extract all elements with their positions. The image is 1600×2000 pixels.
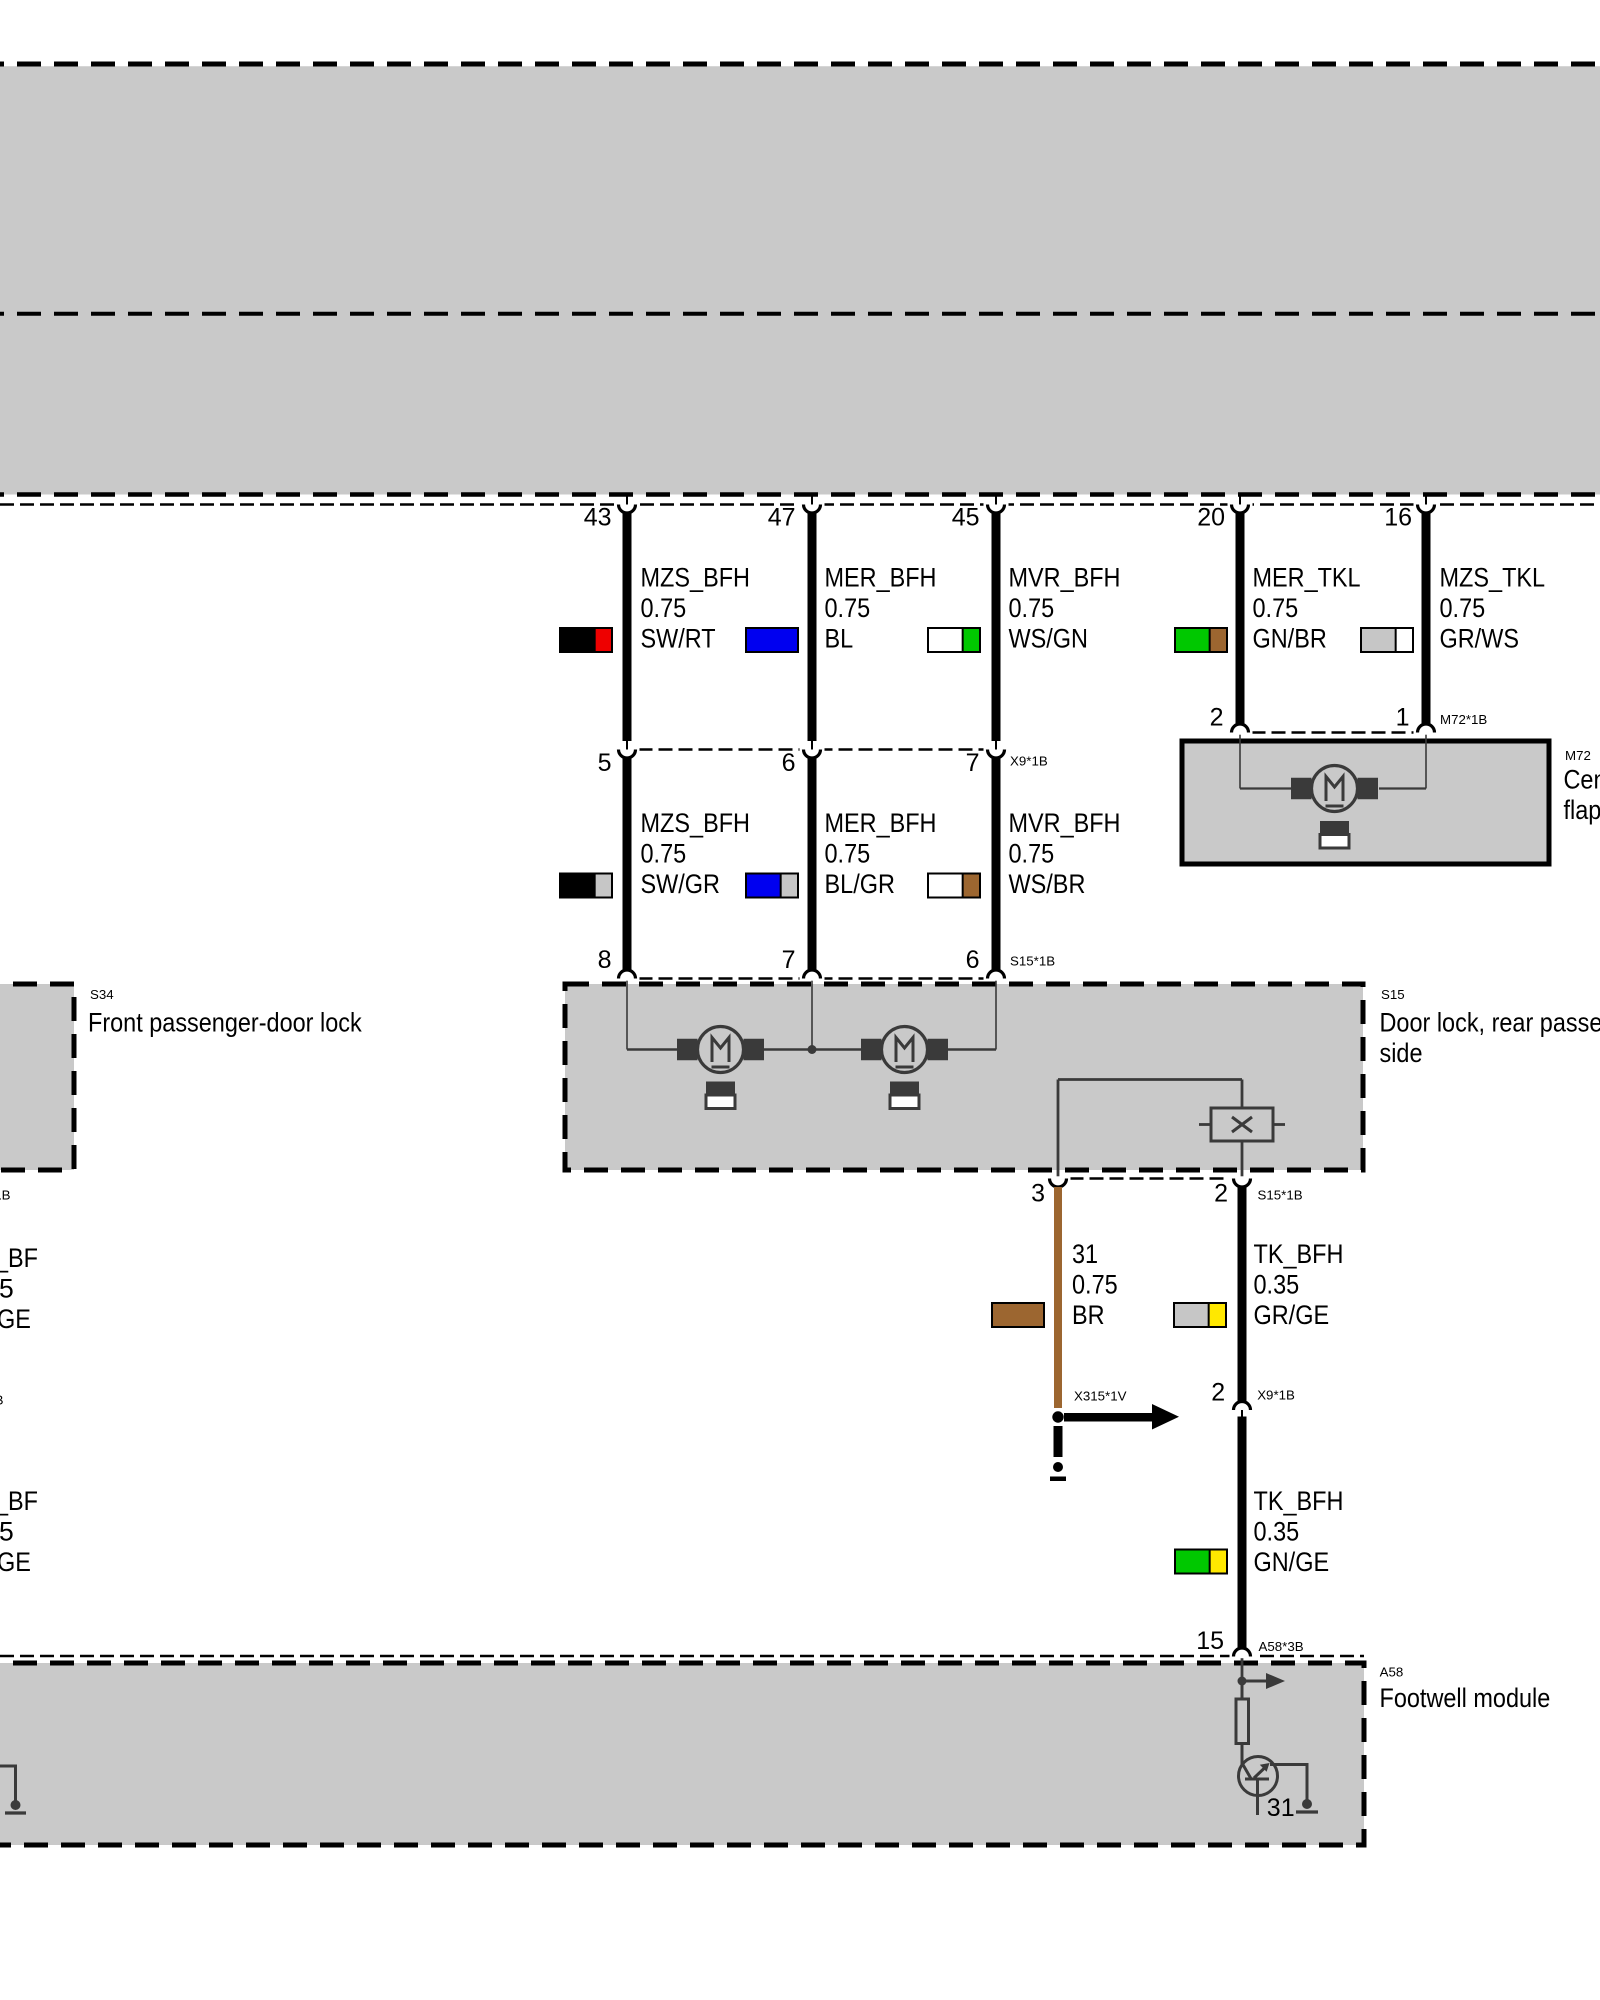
wire MZS_TKL pin 16	[1422, 513, 1431, 724]
S15 switch right stub	[1273, 1123, 1285, 1126]
connector S15*1B gap pin 6	[984, 976, 1009, 980]
module connector gap 1	[615, 502, 640, 506]
svg-text:0.35: 0.35	[1254, 1517, 1300, 1547]
module connector socket pin 47	[804, 505, 821, 514]
connector X9*1B tick pin 6	[811, 741, 813, 750]
connector S15*1B plug pin 6	[988, 970, 1005, 979]
svg-text:8: 8	[598, 946, 612, 974]
svg-text:2: 2	[1211, 1378, 1225, 1406]
svg-text:0.75: 0.75	[1253, 593, 1299, 623]
svg-text:SW/RT: SW/RT	[641, 624, 716, 654]
S34 front passenger-door lock box	[0, 984, 74, 1170]
svg-text:1: 1	[1396, 704, 1410, 732]
svg-text:0.75: 0.75	[1009, 839, 1055, 869]
connector M72*1B plug pin 2	[1232, 724, 1249, 733]
S15 junction dot	[808, 1045, 817, 1054]
svg-text:2: 2	[1214, 1180, 1228, 1208]
S15 door-contact switch box	[1211, 1108, 1273, 1141]
module connector gap 2	[800, 502, 825, 506]
S15 switch X symbol	[1232, 1117, 1252, 1132]
svg-text:MZS_BFH: MZS_BFH	[641, 808, 751, 838]
S15 motor bus wire	[627, 1048, 996, 1050]
svg-text:TK_BFH: TK_BFH	[1254, 1486, 1344, 1516]
module box (junction box electronics, top)	[0, 66, 1600, 494]
X315*1V ground underline	[1050, 1477, 1066, 1482]
A58 ground dot left	[11, 1800, 21, 1810]
connector S15*1B plug pin 7	[804, 970, 821, 979]
svg-text:20: 20	[1197, 504, 1225, 532]
svg-text:SW/GR: SW/GR	[641, 869, 721, 899]
svg-text:WS/BR: WS/BR	[1009, 869, 1086, 899]
X315*1V ground stub bar	[1054, 1426, 1063, 1457]
svg-text:M72: M72	[1565, 748, 1591, 763]
svg-text:A58: A58	[1380, 1665, 1404, 1680]
connector A58*3B plug pin 15	[1234, 1648, 1251, 1657]
A58 left ground wire	[0, 1766, 16, 1802]
A58 ground bar left	[5, 1811, 26, 1814]
svg-text:GE: GE	[0, 1547, 31, 1577]
module connector socket pin 16	[1418, 505, 1435, 514]
svg-text:47: 47	[768, 504, 796, 532]
wire MZS_BFH pin 43	[623, 513, 632, 741]
svg-text:X9*1B: X9*1B	[0, 1393, 4, 1408]
svg-text:MZS_TKL: MZS_TKL	[1440, 563, 1546, 593]
svg-text:MER_TKL: MER_TKL	[1253, 563, 1361, 593]
svg-text:31: 31	[1072, 1239, 1098, 1269]
svg-text:0.35: 0.35	[1254, 1270, 1300, 1300]
svg-text:Central locking, fuel filler: Central locking, fuel filler	[1564, 765, 1600, 795]
swatch GN/GE	[1175, 1550, 1227, 1574]
connector S15*1B bottom gap pin 3	[1046, 1176, 1071, 1180]
S15 switch branch top wire	[1058, 1078, 1242, 1081]
S15 motor M1 flag	[706, 1082, 735, 1096]
swatch SW/RT	[560, 628, 612, 652]
S15 motor M2 flag	[890, 1082, 919, 1096]
swatch WS/GN	[928, 628, 980, 652]
svg-text:BL/GR: BL/GR	[825, 869, 895, 899]
wire MER_BFH lower segment	[808, 758, 817, 971]
svg-text:S15: S15	[1381, 987, 1405, 1002]
svg-text:flap: flap	[1564, 795, 1600, 825]
svg-text:S34: S34	[90, 987, 114, 1002]
svg-text:BL: BL	[825, 624, 854, 654]
module connector tick pin 43	[626, 497, 628, 505]
A58 ground bar right	[1296, 1810, 1318, 1813]
S15 motor M2 (central locking drive)	[861, 1039, 882, 1061]
connector S15*1B bottom gap pin 2	[1230, 1176, 1255, 1180]
svg-text:3: 3	[1031, 1180, 1045, 1208]
connector S15*1B bottom socket pin 3	[1050, 1179, 1067, 1188]
swatch BL	[746, 628, 798, 652]
svg-text:6: 6	[966, 946, 980, 974]
svg-text:side: side	[1380, 1038, 1423, 1068]
swatch BL/GR	[746, 874, 798, 898]
S15 switch branch right wire	[1241, 1080, 1244, 1178]
svg-text:GR/WS: GR/WS	[1440, 624, 1520, 654]
svg-text:45: 45	[952, 504, 980, 532]
connector X9*1B tick pin 5	[626, 741, 628, 750]
svg-text:Door lock, rear passenger: Door lock, rear passenger	[1380, 1007, 1600, 1037]
module box divider dashed line	[0, 312, 1600, 316]
connector X9*1B line	[619, 748, 1005, 751]
svg-text:Front passenger-door lock: Front passenger-door lock	[88, 1007, 362, 1037]
connector X9*1B gap pin 5	[615, 747, 640, 751]
S15 pin line pin 8	[626, 979, 628, 1050]
connector S15*1B plug pin 8	[619, 970, 636, 979]
wire MVR_BFH pin 45	[992, 513, 1001, 741]
svg-text:5: 5	[0, 1517, 14, 1547]
svg-text:6: 6	[782, 749, 796, 777]
wire MZS_BFH lower segment	[623, 758, 632, 971]
svg-text:7: 7	[966, 749, 980, 777]
module connector socket pin 43	[619, 505, 636, 514]
svg-text:S15*1B: S15*1B	[1258, 1188, 1303, 1203]
connector S15*1B gap pin 8	[615, 976, 640, 980]
wire MER_BFH pin 47	[808, 513, 817, 741]
module connector gap 3	[984, 502, 1009, 506]
M72 pin line pin 1	[1425, 733, 1427, 789]
M72 left wire	[1240, 787, 1291, 789]
module connector tick pin 45	[995, 497, 997, 505]
svg-text:GN/GE: GN/GE	[1254, 1547, 1330, 1577]
svg-text:7: 7	[782, 946, 796, 974]
A58 transistor emitter diagonal with arrow	[1254, 1769, 1264, 1779]
A58 wire transistor to ground	[1270, 1765, 1307, 1801]
S15 motor M1 (central locking drive)	[677, 1039, 698, 1061]
connector M72*1B plug pin 1	[1418, 724, 1435, 733]
svg-text:_BF: _BF	[0, 1486, 38, 1516]
S15 door lock rear box	[565, 984, 1363, 1170]
wire MER_TKL pin 20	[1236, 513, 1245, 724]
connector X9*1B tick pin 7	[995, 741, 997, 750]
svg-text:GE: GE	[0, 1304, 31, 1334]
M72 pin line pin 2	[1239, 733, 1241, 789]
A58 signal arrow	[1242, 1680, 1266, 1683]
svg-text:BR: BR	[1072, 1300, 1105, 1330]
svg-text:31: 31	[1267, 1794, 1295, 1822]
svg-text:0.75: 0.75	[825, 593, 871, 623]
A58 resistor	[1236, 1699, 1249, 1744]
svg-text:Footwell module: Footwell module	[1380, 1683, 1551, 1713]
module connector socket pin 45	[988, 505, 1005, 514]
swatch GN/BR	[1175, 628, 1227, 652]
A58 junction dot	[1238, 1677, 1247, 1686]
A58 transistor Q1 circle	[1239, 1757, 1278, 1796]
svg-text:0.75: 0.75	[1009, 593, 1055, 623]
svg-text:S15*1B: S15*1B	[1010, 954, 1055, 969]
svg-text:0.75: 0.75	[1440, 593, 1486, 623]
connector S15*1B bottom socket pin 2	[1234, 1179, 1251, 1188]
A58 footwell module box	[0, 1663, 1364, 1845]
svg-text:15: 15	[1196, 1627, 1224, 1655]
svg-text:GR/GE: GR/GE	[1254, 1300, 1330, 1330]
connector S15*1B line	[619, 977, 1005, 980]
module connector tick pin 47	[811, 497, 813, 505]
svg-text:WS/GN: WS/GN	[1009, 624, 1089, 654]
module connector tick pin 20	[1239, 497, 1241, 505]
swatch SW/GR	[560, 874, 612, 898]
svg-text:5: 5	[598, 749, 612, 777]
connector X9*1B socket pin 6	[804, 750, 821, 759]
S15 pin line pin 7	[811, 979, 813, 1050]
connector X9*1B socket pin 7	[988, 750, 1005, 759]
svg-text:MER_BFH: MER_BFH	[825, 808, 937, 838]
connector X9*1B socket pin 5	[619, 750, 636, 759]
S15 pin line pin 6	[995, 979, 997, 1050]
wire MVR_BFH lower segment	[992, 758, 1001, 971]
svg-text:GN/BR: GN/BR	[1253, 624, 1327, 654]
swatch GR/WS	[1361, 628, 1413, 652]
svg-text:0.75: 0.75	[1072, 1270, 1118, 1300]
A58 transistor emitter down lead	[1256, 1779, 1259, 1815]
svg-text:0.75: 0.75	[825, 839, 871, 869]
S15 switch branch left wire	[1057, 1080, 1060, 1178]
X315*1V junction dot	[1052, 1411, 1063, 1422]
M72 motor (fuel filler flap)	[1291, 778, 1312, 800]
svg-text:MER_BFH: MER_BFH	[825, 563, 937, 593]
X315*1V continuation arrow	[1064, 1413, 1152, 1422]
connector A58*3B line	[0, 1655, 1364, 1658]
swatch GR/GE	[1174, 1303, 1226, 1327]
svg-text:X9*1B: X9*1B	[1257, 1388, 1295, 1403]
svg-text:16: 16	[1384, 504, 1412, 532]
M72 right wire	[1379, 787, 1426, 789]
svg-text:X9*1B: X9*1B	[1010, 754, 1048, 769]
module bottom connector line	[0, 503, 1600, 506]
connector X9*1B pin2 plug	[1234, 1402, 1251, 1411]
M72 central-locking fuel filler flap box	[1182, 741, 1549, 864]
A58 wire resistor to transistor	[1241, 1744, 1244, 1765]
module connector tick pin 16	[1425, 497, 1427, 505]
svg-text:MVR_BFH: MVR_BFH	[1009, 563, 1121, 593]
A58 transistor collector diagonal	[1242, 1763, 1252, 1780]
connector X9*1B gap pin 6	[800, 747, 825, 751]
wire TK_BFH GN/GE segment	[1238, 1417, 1247, 1649]
A58 ground dot right	[1302, 1799, 1312, 1809]
module box bottom dashed border	[0, 492, 1600, 497]
module connector socket pin 20	[1232, 505, 1249, 514]
svg-text:M72*1B: M72*1B	[1440, 712, 1487, 727]
module connector gap 4	[1228, 502, 1253, 506]
svg-text:5: 5	[0, 1274, 14, 1304]
X315*1V ground dot	[1053, 1462, 1063, 1472]
svg-text:0.75: 0.75	[641, 839, 687, 869]
module box top dashed border	[0, 62, 1600, 67]
A58 wire to resistor	[1241, 1681, 1244, 1699]
svg-text:43: 43	[584, 504, 612, 532]
module connector gap 5	[1414, 502, 1439, 506]
connector S15*1B gap pin 7	[800, 976, 825, 980]
A58 pin line pin 15	[1241, 1657, 1244, 1682]
wire 31 BR brown	[1054, 1187, 1062, 1408]
svg-text:X315*1V: X315*1V	[1074, 1389, 1127, 1404]
connector M72*1B line	[1232, 731, 1435, 734]
swatch WS/BR	[928, 874, 980, 898]
connector S15*1B bottom line	[1050, 1177, 1251, 1180]
svg-text:A58*3B: A58*3B	[1259, 1639, 1304, 1654]
connector M72*1B gap pin 2	[1228, 730, 1253, 734]
svg-text:TK_BFH: TK_BFH	[1254, 1239, 1344, 1269]
svg-text:2: 2	[1210, 704, 1224, 732]
svg-text:0.75: 0.75	[641, 593, 687, 623]
connector A58*3B gap	[1230, 1654, 1255, 1658]
connector M72*1B gap pin 1	[1414, 730, 1439, 734]
S15 switch left stub	[1199, 1123, 1211, 1126]
M72 motor flag	[1320, 821, 1349, 835]
swatch BR	[992, 1303, 1044, 1327]
wire TK_BFH GR/GE segment	[1238, 1187, 1247, 1402]
svg-text:_BF: _BF	[0, 1243, 38, 1273]
svg-text:S34*1B: S34*1B	[0, 1188, 11, 1203]
A58 transistor base bar	[1245, 1778, 1269, 1781]
connector X9*1B pin2 tick	[1241, 1410, 1243, 1417]
svg-text:MVR_BFH: MVR_BFH	[1009, 808, 1121, 838]
svg-text:MZS_BFH: MZS_BFH	[641, 563, 751, 593]
connector X9*1B gap pin 7	[984, 747, 1009, 751]
